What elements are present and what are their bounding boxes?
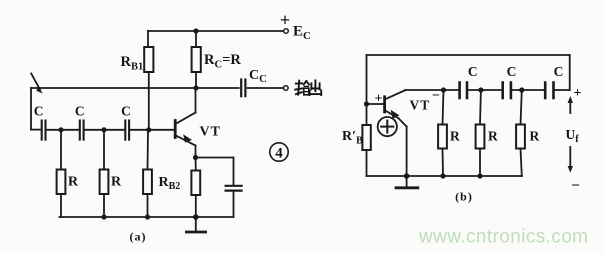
svg-text:+: + xyxy=(375,92,383,107)
terminal output xyxy=(284,86,289,91)
capacitor C2 xyxy=(80,121,84,140)
wire xyxy=(85,129,124,131)
resistor R1 xyxy=(57,130,66,217)
capacitor CC xyxy=(241,80,245,97)
transistor VT (a) xyxy=(175,88,195,158)
svg-text:R: R xyxy=(111,175,122,190)
node xyxy=(477,173,482,178)
svg-text:R: R xyxy=(488,129,498,144)
svg-text:C: C xyxy=(34,104,44,119)
terminal Ec xyxy=(284,29,289,34)
svg-text:(a): (a) xyxy=(130,230,147,244)
wire collector row (b) xyxy=(406,89,458,91)
wire left vertical (a) xyxy=(30,88,32,130)
wire chain end xyxy=(555,89,570,91)
svg-text:R: R xyxy=(68,175,79,190)
resistor R2b xyxy=(476,90,485,176)
svg-text:C: C xyxy=(121,104,131,119)
node N1 xyxy=(58,127,63,132)
resistor R2 xyxy=(100,130,109,217)
node supply junction xyxy=(193,28,198,33)
ground (b) xyxy=(396,176,418,188)
node xyxy=(440,173,445,178)
svg-text:R: R xyxy=(450,129,460,144)
annotation Uf arrows xyxy=(568,96,573,173)
capacitor C1b xyxy=(460,83,467,99)
node N2 xyxy=(101,127,106,132)
node xyxy=(478,87,483,92)
wire bottom rail (a) xyxy=(60,216,234,218)
wire left vertical lower (b) xyxy=(366,150,368,176)
wire top supply rail (a) xyxy=(148,30,284,32)
wire to output xyxy=(248,87,284,89)
node ground junction xyxy=(193,214,199,220)
wire emitter to bypass xyxy=(196,157,234,159)
wire base row xyxy=(130,129,174,131)
svg-text:+: + xyxy=(574,86,582,101)
svg-text:C: C xyxy=(468,64,478,79)
wire base (b) xyxy=(367,103,384,105)
capacitor bypass xyxy=(226,158,242,218)
svg-text:www.cntronics.com: www.cntronics.com xyxy=(418,227,588,248)
ground (a) xyxy=(186,217,205,232)
node xyxy=(101,214,106,219)
transistor VT (b) xyxy=(385,90,407,176)
svg-text:VT: VT xyxy=(200,125,221,140)
svg-text:C: C xyxy=(554,64,564,79)
capacitor C3 xyxy=(125,121,129,140)
wire right vertical (b) xyxy=(569,55,571,90)
node xyxy=(441,87,446,92)
capacitor C1 xyxy=(42,121,46,140)
wire phase-shift row xyxy=(31,129,41,131)
node collector junction xyxy=(193,85,198,90)
svg-text:RC=R: RC=R xyxy=(204,52,241,71)
node xyxy=(404,173,410,179)
svg-text:C: C xyxy=(75,104,85,119)
label output (Chinese) xyxy=(295,80,321,95)
node base xyxy=(146,127,151,132)
wire xyxy=(47,129,79,131)
svg-text:4: 4 xyxy=(275,146,283,162)
wire feedback line from collector xyxy=(31,87,239,89)
wire xyxy=(512,89,544,91)
svg-text:VT: VT xyxy=(410,98,431,113)
resistor R1b xyxy=(438,90,447,176)
wire left vertical (b) xyxy=(366,55,368,125)
svg-text:−: − xyxy=(571,178,580,194)
wire top rail (b) xyxy=(367,54,570,56)
svg-text:(b): (b) xyxy=(455,190,473,204)
svg-text:+: + xyxy=(280,10,290,30)
svg-text:−: − xyxy=(432,89,440,104)
resistor Re xyxy=(191,158,200,218)
svg-text:R: R xyxy=(530,129,540,144)
wire bottom rail (b) xyxy=(367,175,522,177)
svg-text:C: C xyxy=(507,64,517,79)
source circle xyxy=(378,117,397,136)
resistor R'B xyxy=(362,125,370,150)
arrow feedback marker xyxy=(31,74,42,94)
node xyxy=(145,214,150,219)
node xyxy=(519,87,524,92)
capacitor C3b xyxy=(545,83,553,99)
label circled 4 xyxy=(270,143,288,162)
wire xyxy=(468,89,501,91)
resistor R3b xyxy=(516,90,525,176)
resistor RC xyxy=(192,31,201,88)
node emitter xyxy=(193,155,198,160)
resistor RB2 xyxy=(143,130,152,217)
node base tap (b) xyxy=(364,101,369,106)
resistor RB1 xyxy=(144,31,153,130)
capacitor C2b xyxy=(503,83,511,99)
